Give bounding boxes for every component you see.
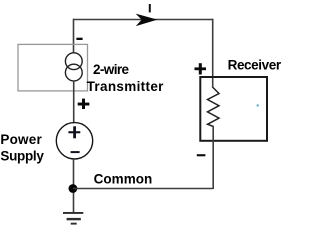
stray blue dot artifact <box>257 104 259 106</box>
node: common junction <box>69 184 78 193</box>
wire: transmitter to power supply <box>73 81 75 124</box>
svg-text:Receiver: Receiver <box>228 58 282 73</box>
power supply - <box>71 151 80 153</box>
polarity + (transmitter bottom) <box>78 99 90 109</box>
wire: left vertical (top corner to current source) <box>73 19 75 54</box>
wire: top horizontal <box>74 19 213 21</box>
polarity + (receiver) <box>195 63 207 74</box>
wire: bottom horizontal (common) <box>73 188 213 190</box>
receiver box <box>200 77 267 141</box>
resistor (receiver load) <box>208 88 220 127</box>
svg-text:2-wire: 2-wire <box>93 62 130 77</box>
wire: power supply to ground <box>73 159 75 213</box>
svg-text:Supply: Supply <box>0 148 44 163</box>
wire: resistor to common <box>212 126 214 189</box>
svg-text:Common: Common <box>94 172 153 187</box>
transmitter box <box>18 44 88 91</box>
svg-text:Transmitter: Transmitter <box>87 79 165 94</box>
svg-text:Power: Power <box>0 132 42 147</box>
current arrow <box>136 14 158 27</box>
ground <box>63 212 83 225</box>
power supply source <box>56 123 92 159</box>
label I <box>149 4 151 12</box>
power supply + <box>68 126 80 138</box>
wire: right vertical (top corner to resistor) <box>212 19 214 88</box>
current source symbol (two circles) <box>65 53 82 70</box>
polarity - (transmitter top) <box>76 38 82 40</box>
polarity - (receiver) <box>197 154 206 156</box>
